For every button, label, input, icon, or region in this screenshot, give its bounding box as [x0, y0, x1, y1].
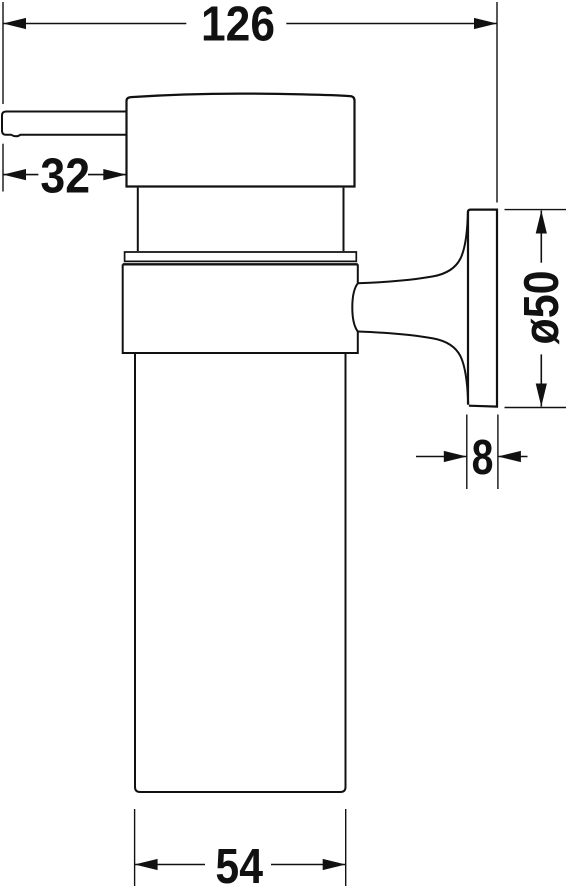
- dimension o50 extension line top: [505, 209, 567, 211]
- dimension o50 arrowheads: [536, 211, 547, 407]
- dimension 126 arrowheads: [3, 18, 497, 29]
- svg-text:8: 8: [472, 430, 494, 485]
- spout: [2, 112, 127, 137]
- dimension 54 extension line right: [345, 809, 347, 886]
- pump head: [127, 94, 355, 187]
- bracket top curve: [358, 211, 468, 283]
- dimension 8 arrowheads: [444, 451, 521, 462]
- svg-text:54: 54: [215, 839, 263, 887]
- svg-text:32: 32: [40, 148, 90, 203]
- dimension 32 arrowheads: [3, 169, 126, 180]
- dimension 8 extension line right: [497, 415, 499, 490]
- dimension 126 line: [3, 23, 497, 25]
- bracket waist: [352, 283, 358, 331]
- bracket bottom curve: [358, 332, 468, 405]
- dimension 8 extension line left: [466, 415, 468, 490]
- dimension 8 line: [416, 456, 528, 458]
- dimension 54 extension line left: [134, 809, 136, 886]
- flange: [125, 252, 357, 261]
- svg-text:126: 126: [201, 0, 275, 51]
- dimension 32 line: [3, 174, 126, 176]
- dimension 32 extension line: [2, 144, 4, 192]
- wall plate: [468, 210, 497, 407]
- dimension 54 arrowheads: [135, 859, 346, 870]
- bottle body: [135, 353, 346, 792]
- dimension 126 extension line left: [2, 2, 4, 104]
- collar: [123, 264, 358, 353]
- dimension o50 extension line bottom: [505, 407, 567, 409]
- svg-text:ø50: ø50: [514, 271, 567, 345]
- neck: [138, 188, 344, 251]
- dimension o50 line: [540, 211, 542, 407]
- dimension 126 extension line right: [496, 2, 498, 203]
- dimension 54 line: [135, 864, 346, 866]
